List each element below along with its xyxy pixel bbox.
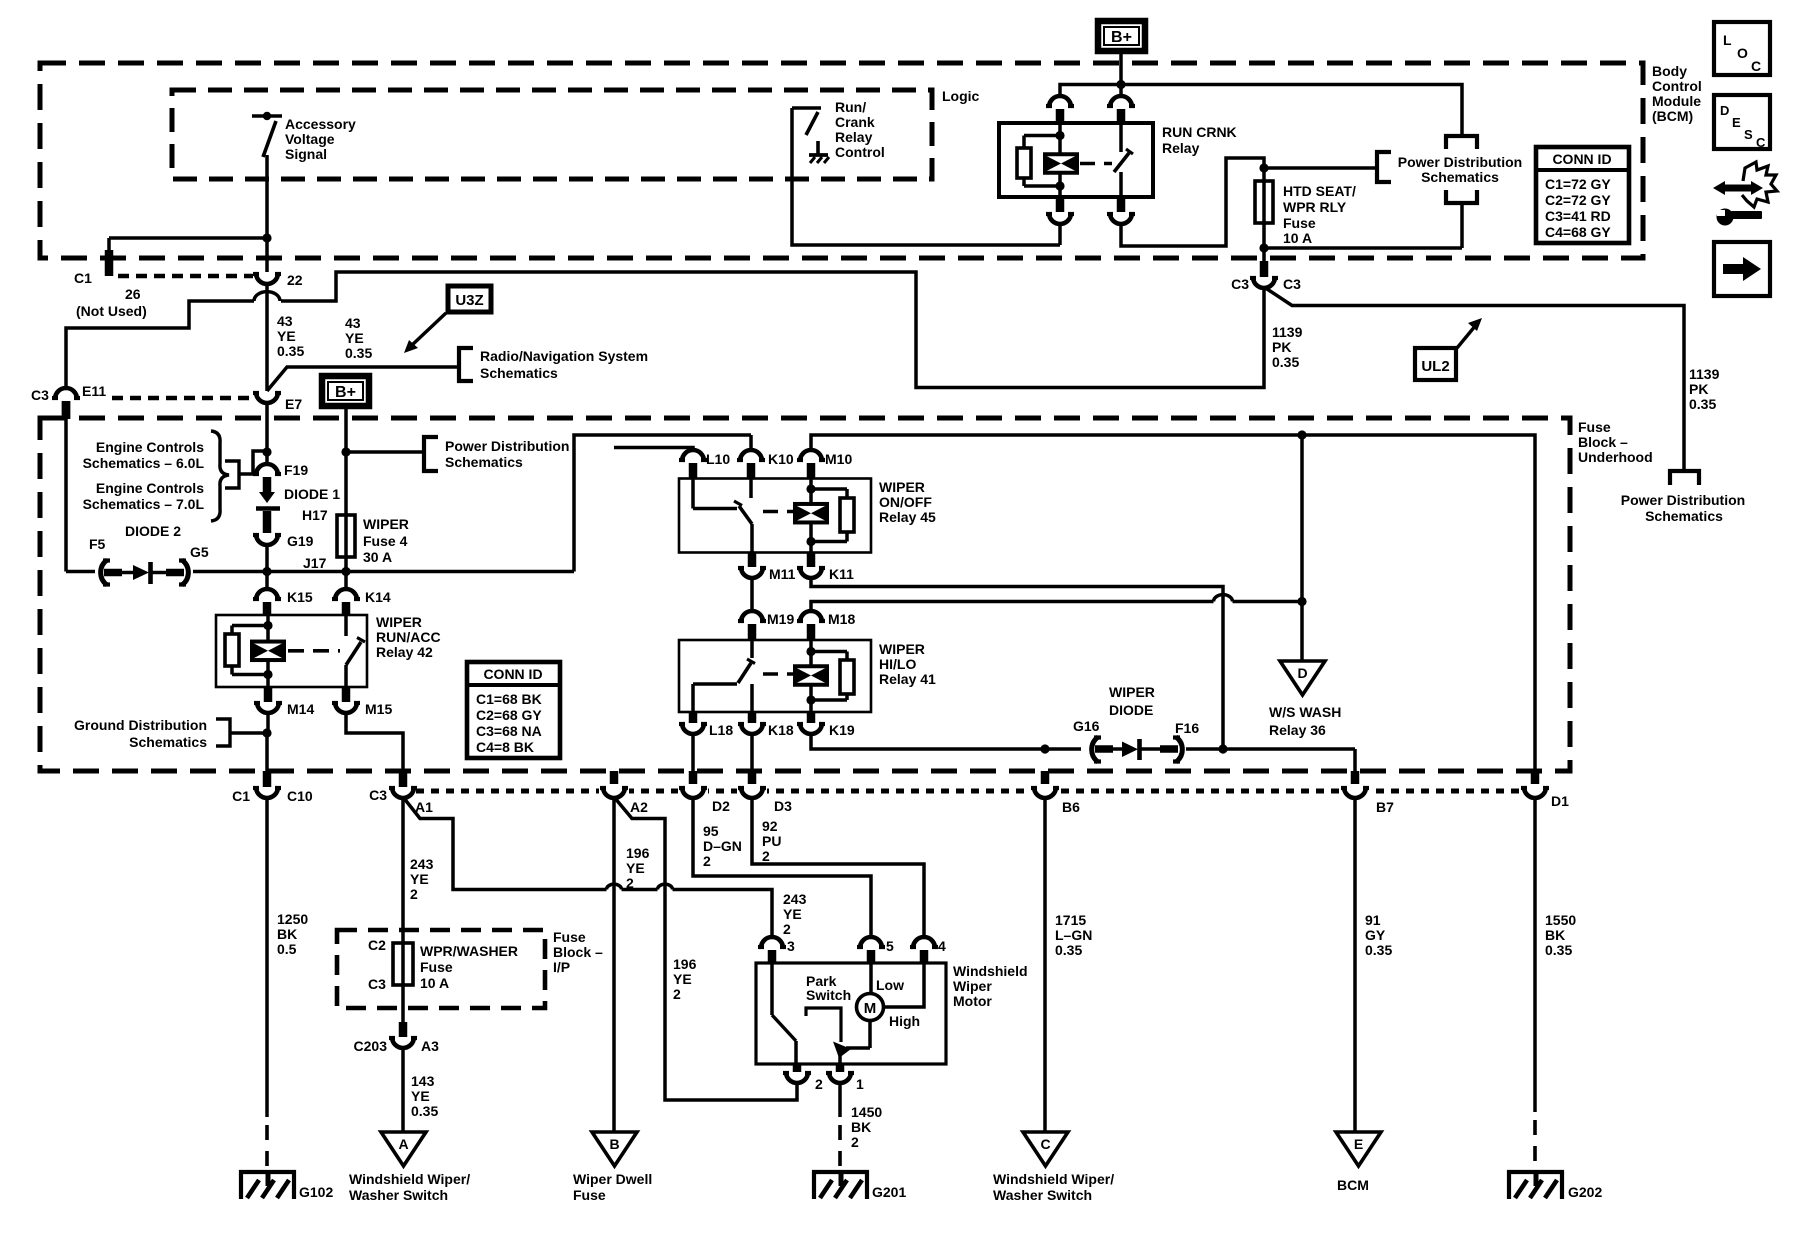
svg-text:YE: YE bbox=[626, 860, 645, 876]
svg-text:Power Distribution: Power Distribution bbox=[1621, 492, 1745, 508]
svg-text:M11: M11 bbox=[769, 566, 796, 582]
triangle E BCM bbox=[1336, 1132, 1381, 1166]
svg-text:G201: G201 bbox=[872, 1184, 906, 1200]
connector F5 bbox=[101, 560, 107, 585]
ground G102 bbox=[241, 1172, 294, 1199]
svg-text:PU: PU bbox=[762, 833, 781, 849]
svg-text:2: 2 bbox=[783, 921, 791, 937]
svg-text:E: E bbox=[1732, 115, 1741, 130]
triangle A windshield wiper washer switch bbox=[381, 1132, 426, 1166]
diode WIPER DIODE bbox=[1095, 745, 1113, 753]
svg-text:HTD SEAT/: HTD SEAT/ bbox=[1283, 183, 1356, 199]
svg-text:C3: C3 bbox=[1283, 276, 1301, 292]
relay42 actuator dashed bbox=[288, 649, 340, 653]
connector K18 bbox=[748, 712, 757, 723]
connector E7 bbox=[256, 392, 278, 403]
off-page bracket power distribution (fuse block) bbox=[424, 437, 438, 471]
svg-text:Windshield: Windshield bbox=[953, 963, 1028, 979]
svg-text:GY: GY bbox=[1365, 927, 1386, 943]
wire K11 to wiper diode node bbox=[811, 577, 1223, 749]
svg-text:D–GN: D–GN bbox=[703, 838, 742, 854]
connector F19 bbox=[256, 464, 278, 475]
svg-text:5: 5 bbox=[886, 938, 894, 954]
svg-text:Fuse: Fuse bbox=[420, 959, 453, 975]
svg-text:2: 2 bbox=[851, 1134, 859, 1150]
svg-text:243: 243 bbox=[410, 856, 434, 872]
svg-text:G16: G16 bbox=[1073, 718, 1100, 734]
svg-text:G202: G202 bbox=[1568, 1184, 1602, 1200]
node junction accessory/C1 branch bbox=[262, 233, 271, 242]
svg-text:Crank: Crank bbox=[835, 114, 875, 130]
svg-text:C: C bbox=[1751, 58, 1761, 74]
svg-text:UL2: UL2 bbox=[1421, 358, 1449, 375]
connector 22 at BCM C1 bbox=[256, 273, 278, 284]
Fuse Block I/P dashed box bbox=[337, 930, 545, 1008]
wire low speed bbox=[869, 963, 873, 994]
svg-text:196: 196 bbox=[626, 845, 650, 861]
connector G16 bbox=[1092, 737, 1098, 762]
connector E11 at BCM C3 bbox=[55, 388, 77, 399]
UL2 label box bbox=[1415, 348, 1456, 380]
connector D3 bbox=[748, 771, 757, 787]
connector L10 bbox=[682, 450, 704, 461]
svg-text:143: 143 bbox=[411, 1073, 435, 1089]
wire 196 YE A2 branch to motor pin 2 bbox=[614, 797, 797, 1100]
resistor relay42 bbox=[225, 634, 239, 666]
BCM dashed outline (Body Control Module) bbox=[40, 63, 1643, 258]
connector B6 bbox=[1041, 771, 1050, 787]
dashed C1 connector row bbox=[118, 274, 253, 278]
svg-text:Low: Low bbox=[876, 977, 904, 993]
relay42 coil bbox=[266, 615, 270, 626]
wire B+ down bbox=[1119, 51, 1123, 85]
connector RUN CRNK relay switch pin (top) bbox=[1119, 85, 1123, 97]
connector M19 bbox=[741, 611, 763, 622]
Run/Crank Relay Control switch in logic box bbox=[792, 106, 821, 110]
svg-text:Ground Distribution: Ground Distribution bbox=[74, 717, 207, 733]
park switch bbox=[770, 963, 774, 1015]
svg-text:K19: K19 bbox=[829, 722, 855, 738]
svg-text:Radio/Navigation System: Radio/Navigation System bbox=[480, 348, 648, 364]
svg-text:Switch: Switch bbox=[806, 987, 851, 1003]
svg-text:Washer Switch: Washer Switch bbox=[349, 1187, 448, 1203]
windshield wiper motor box bbox=[756, 963, 946, 1064]
svg-text:B7: B7 bbox=[1376, 799, 1394, 815]
wire M14 to C1/C10 bbox=[266, 712, 270, 733]
svg-text:DIODE: DIODE bbox=[1109, 702, 1153, 718]
fuse WIPER Fuse 4 30A bbox=[337, 515, 355, 557]
svg-text:Module: Module bbox=[1652, 93, 1701, 109]
svg-text:C1=72 GY: C1=72 GY bbox=[1545, 176, 1611, 192]
connector RUN CRNK coil pin (bottom) bbox=[1056, 197, 1065, 212]
icon double-arrow wrench bbox=[1713, 181, 1725, 195]
svg-text:91: 91 bbox=[1365, 912, 1381, 928]
relay41 switch bbox=[750, 640, 754, 658]
svg-text:Schematics: Schematics bbox=[1421, 169, 1499, 185]
switch contacts RUN CRNK relay bbox=[1119, 123, 1123, 152]
svg-text:Relay 41: Relay 41 bbox=[879, 671, 936, 687]
wire M10 rail to D1 bbox=[811, 435, 1535, 772]
svg-text:B+: B+ bbox=[1111, 29, 1132, 46]
svg-text:2: 2 bbox=[410, 886, 418, 902]
connector motor pin 2 bbox=[793, 1064, 802, 1072]
resistor in RUN CRNK relay bbox=[1017, 148, 1031, 178]
svg-text:YE: YE bbox=[783, 906, 802, 922]
svg-text:Schematics: Schematics bbox=[445, 454, 523, 470]
svg-text:YE: YE bbox=[345, 330, 364, 346]
svg-text:WPR RLY: WPR RLY bbox=[1283, 199, 1347, 215]
svg-text:0.35: 0.35 bbox=[345, 345, 372, 361]
svg-text:(BCM): (BCM) bbox=[1652, 108, 1693, 124]
wire rail corner to K10 bbox=[749, 435, 753, 450]
svg-text:43: 43 bbox=[277, 313, 293, 329]
wire 1550 BK D1 to G202 bbox=[1533, 797, 1537, 1112]
svg-text:W/S WASH: W/S WASH bbox=[1269, 704, 1341, 720]
svg-text:H17: H17 bbox=[302, 507, 328, 523]
svg-text:Washer Switch: Washer Switch bbox=[993, 1187, 1092, 1203]
svg-text:DIODE 2: DIODE 2 bbox=[125, 523, 181, 539]
svg-text:Block –: Block – bbox=[553, 944, 603, 960]
wire 196 YE A2 to triangle B bbox=[612, 797, 616, 1132]
svg-text:D2: D2 bbox=[712, 798, 730, 814]
svg-text:Fuse: Fuse bbox=[553, 929, 586, 945]
ground G201 bbox=[814, 1172, 867, 1199]
relay WIPER RUN/ACC Relay 42 box bbox=[216, 615, 367, 687]
wire L18 to D2 bbox=[691, 733, 695, 772]
svg-text:High: High bbox=[889, 1013, 920, 1029]
RUN CRNK relay coil circuit bbox=[1058, 123, 1062, 136]
svg-text:ON/OFF: ON/OFF bbox=[879, 494, 932, 510]
wire branch to C1 pin 26 bbox=[109, 236, 267, 240]
wire diode to B7 bbox=[1186, 747, 1355, 751]
svg-text:1250: 1250 bbox=[277, 911, 308, 927]
svg-text:43: 43 bbox=[345, 315, 361, 331]
wire high speed bbox=[884, 963, 924, 1007]
node engine controls tap bbox=[262, 447, 271, 456]
node K14 junction bbox=[341, 567, 350, 576]
svg-text:RUN/ACC: RUN/ACC bbox=[376, 629, 441, 645]
wire tap to power distribution bracket bbox=[346, 450, 424, 454]
icon forward arrow box bbox=[1714, 242, 1770, 296]
resistor relay41 bbox=[811, 650, 847, 654]
relay WIPER ON/OFF Relay 45 box bbox=[679, 479, 871, 553]
svg-text:C2: C2 bbox=[368, 937, 386, 953]
svg-text:C1: C1 bbox=[232, 788, 250, 804]
svg-text:F5: F5 bbox=[89, 536, 106, 552]
svg-text:Schematics: Schematics bbox=[129, 734, 207, 750]
node ground distribution tap bbox=[262, 728, 271, 737]
svg-text:A1: A1 bbox=[415, 799, 433, 815]
node B+ junction bbox=[1116, 80, 1125, 89]
connector A2 bbox=[610, 771, 619, 787]
wire E11 branch down left side bbox=[62, 401, 71, 419]
connector G19 bbox=[256, 534, 278, 545]
power distribution inline symbol (BCM) bbox=[1446, 136, 1477, 149]
svg-text:K10: K10 bbox=[768, 451, 794, 467]
svg-text:YE: YE bbox=[411, 1088, 430, 1104]
svg-text:Control: Control bbox=[1652, 78, 1702, 94]
svg-text:D1: D1 bbox=[1551, 793, 1569, 809]
svg-text:YE: YE bbox=[410, 871, 429, 887]
wire relay output to HTD SEAT fuse bbox=[1121, 158, 1264, 246]
U3Z label box bbox=[448, 286, 491, 312]
wire run/crank control to relay coil bbox=[792, 108, 1060, 245]
svg-text:Relay 36: Relay 36 bbox=[1269, 722, 1326, 738]
connector RUN CRNK relay coil pin (top) bbox=[1049, 96, 1071, 107]
svg-text:Schematics: Schematics bbox=[480, 365, 558, 381]
svg-text:WPR/WASHER: WPR/WASHER bbox=[420, 943, 518, 959]
wire 92 PU D3 to motor pin 4 bbox=[752, 797, 924, 938]
wire diode2 row to K15/K14 bbox=[193, 570, 574, 574]
connector D2 bbox=[689, 771, 698, 787]
svg-text:Fuse: Fuse bbox=[573, 1187, 606, 1203]
svg-text:Relay: Relay bbox=[835, 129, 873, 145]
svg-text:L: L bbox=[1723, 32, 1732, 48]
svg-text:Fuse 4: Fuse 4 bbox=[363, 533, 408, 549]
connector C3/A1 bbox=[399, 771, 408, 787]
svg-text:Control: Control bbox=[835, 144, 885, 160]
wire M11 to M19 bbox=[750, 577, 754, 612]
svg-text:Schematics: Schematics bbox=[1645, 508, 1723, 524]
node power distribution tap bbox=[341, 447, 350, 456]
svg-text:WIPER: WIPER bbox=[376, 614, 422, 630]
accessory voltage signal switch bbox=[263, 112, 271, 120]
connector M18 bbox=[800, 611, 822, 622]
svg-text:DIODE 1: DIODE 1 bbox=[284, 486, 340, 502]
wire M15 to C3/A1 bbox=[346, 712, 403, 772]
svg-text:HI/LO: HI/LO bbox=[879, 656, 916, 672]
svg-text:Underhood: Underhood bbox=[1578, 449, 1653, 465]
B+ power symbol (fuse block) bbox=[322, 376, 369, 406]
fuse WPR/WASHER 10A bbox=[393, 943, 413, 985]
wire G19 to K15 junction bbox=[265, 544, 269, 572]
svg-text:196: 196 bbox=[673, 956, 697, 972]
svg-text:3: 3 bbox=[787, 938, 795, 954]
svg-text:YE: YE bbox=[277, 328, 296, 344]
wire pin22 lower bbox=[265, 238, 269, 272]
svg-text:WIPER: WIPER bbox=[879, 641, 925, 657]
node B6 junction bbox=[1040, 744, 1049, 753]
coil winding relay42 bbox=[252, 642, 284, 661]
wire 91 GY B7 to triangle E bbox=[1353, 797, 1357, 1132]
svg-text:2: 2 bbox=[703, 853, 711, 869]
resistor relay45 bbox=[811, 487, 847, 491]
svg-text:Windshield Wiper/: Windshield Wiper/ bbox=[349, 1171, 470, 1187]
wire 1450 BK to G201 bbox=[838, 1082, 842, 1117]
svg-text:O: O bbox=[1737, 45, 1748, 61]
svg-text:Signal: Signal bbox=[285, 146, 327, 162]
svg-text:B: B bbox=[609, 1136, 619, 1152]
svg-text:A3: A3 bbox=[421, 1038, 439, 1054]
wire K15/K14 row up to relay feed rail bbox=[574, 435, 751, 572]
svg-text:Voltage: Voltage bbox=[285, 131, 335, 147]
UL2 arrow bbox=[1457, 325, 1476, 348]
HTD SEAT/WPR RLY fuse bbox=[1262, 168, 1266, 262]
connector M15 bbox=[342, 687, 351, 702]
svg-text:E7: E7 bbox=[285, 396, 302, 412]
svg-text:BK: BK bbox=[851, 1119, 871, 1135]
wire K19 to wiper diode row bbox=[811, 733, 1081, 749]
triangle D page reference bbox=[1280, 661, 1325, 695]
relay45 actuator dashed bbox=[763, 510, 793, 514]
connector F16 bbox=[1176, 737, 1182, 762]
svg-text:0.5: 0.5 bbox=[277, 941, 297, 957]
svg-text:Schematics – 7.0L: Schematics – 7.0L bbox=[83, 496, 205, 512]
connector motor pin 3 bbox=[761, 937, 783, 948]
CONN ID table (BCM) bbox=[1536, 147, 1629, 243]
wire fuse top to power distribution page ref bbox=[1264, 166, 1377, 170]
svg-text:K18: K18 bbox=[768, 722, 794, 738]
svg-text:Relay: Relay bbox=[1162, 140, 1200, 156]
wire M18 to W/S wash relay wire bbox=[811, 602, 1214, 612]
wire 143 YE to triangle A bbox=[401, 1047, 405, 1132]
svg-text:4: 4 bbox=[938, 938, 946, 954]
svg-text:WIPER: WIPER bbox=[1109, 684, 1155, 700]
svg-text:M15: M15 bbox=[365, 701, 392, 717]
node wiper diode/K11 junction bbox=[1218, 744, 1227, 753]
Logic dashed box bbox=[172, 90, 932, 179]
svg-text:A: A bbox=[398, 1136, 408, 1152]
svg-text:1139: 1139 bbox=[1689, 366, 1720, 382]
svg-text:C: C bbox=[1756, 135, 1766, 150]
C1 pin 26 stub (not used) bbox=[105, 250, 114, 276]
diode DIODE 1 bbox=[259, 492, 275, 503]
svg-text:95: 95 bbox=[703, 823, 719, 839]
svg-text:0.35: 0.35 bbox=[1055, 942, 1082, 958]
relay45 coil bbox=[809, 479, 813, 490]
wire E7 into fuse block bbox=[265, 402, 269, 465]
svg-text:PK: PK bbox=[1689, 381, 1708, 397]
wire W/S wash relay drop bbox=[1300, 435, 1304, 661]
svg-text:J17: J17 bbox=[303, 555, 327, 571]
wire B+ rail left to coil pin bbox=[1060, 85, 1121, 97]
svg-text:10 A: 10 A bbox=[420, 975, 449, 991]
svg-text:B6: B6 bbox=[1062, 799, 1080, 815]
wire B+ to wiper fuse bbox=[344, 406, 348, 572]
svg-text:C3=41 RD: C3=41 RD bbox=[1545, 208, 1611, 224]
CONN ID table (fuse block) bbox=[467, 662, 560, 758]
svg-text:C2=72 GY: C2=72 GY bbox=[1545, 192, 1611, 208]
wire 243 YE C3/A1 down through WPR fuse bbox=[401, 797, 405, 1022]
connector M11 bbox=[748, 553, 757, 568]
actuator dashed link RUN CRNK bbox=[1080, 162, 1112, 166]
relay RUN CRNK box bbox=[999, 123, 1153, 197]
svg-text:Fuse: Fuse bbox=[1578, 419, 1611, 435]
svg-text:1450: 1450 bbox=[851, 1104, 882, 1120]
connector motor pin 1 bbox=[836, 1064, 845, 1072]
svg-text:1715: 1715 bbox=[1055, 912, 1086, 928]
connector K10 bbox=[740, 450, 762, 461]
connector K15 bbox=[265, 572, 269, 590]
svg-text:C1: C1 bbox=[74, 270, 92, 286]
svg-text:WIPER: WIPER bbox=[363, 516, 409, 532]
svg-text:BK: BK bbox=[1545, 927, 1565, 943]
svg-text:Motor: Motor bbox=[953, 993, 992, 1009]
svg-text:2: 2 bbox=[673, 986, 681, 1002]
svg-text:Accessory: Accessory bbox=[285, 116, 356, 132]
svg-text:2: 2 bbox=[815, 1076, 823, 1092]
svg-text:YE: YE bbox=[673, 971, 692, 987]
wire K18 to D3 bbox=[750, 733, 754, 772]
svg-text:C3: C3 bbox=[368, 976, 386, 992]
svg-text:F19: F19 bbox=[284, 462, 308, 478]
connector K14 bbox=[344, 572, 348, 590]
svg-text:Wiper Dwell: Wiper Dwell bbox=[573, 1171, 652, 1187]
svg-text:CONN ID: CONN ID bbox=[1552, 151, 1611, 167]
svg-text:0.35: 0.35 bbox=[1365, 942, 1392, 958]
svg-text:E: E bbox=[1354, 1136, 1363, 1152]
svg-text:C: C bbox=[1040, 1136, 1050, 1152]
svg-text:G102: G102 bbox=[299, 1184, 333, 1200]
svg-text:10 A: 10 A bbox=[1283, 230, 1312, 246]
svg-text:2: 2 bbox=[762, 848, 770, 864]
svg-text:C2=68 GY: C2=68 GY bbox=[476, 707, 542, 723]
svg-text:Power Distribution: Power Distribution bbox=[1398, 154, 1522, 170]
node fuse top junction bbox=[1259, 163, 1268, 172]
svg-text:K11: K11 bbox=[829, 566, 854, 582]
svg-text:L10: L10 bbox=[706, 451, 730, 467]
svg-text:M19: M19 bbox=[767, 611, 794, 627]
svg-text:2: 2 bbox=[626, 875, 634, 891]
relay42 switch bbox=[344, 615, 348, 636]
svg-text:L–GN: L–GN bbox=[1055, 927, 1092, 943]
svg-text:0.35: 0.35 bbox=[411, 1103, 438, 1119]
svg-text:PK: PK bbox=[1272, 339, 1291, 355]
connector C3/C3 underhood fuse block bbox=[1260, 261, 1269, 277]
icon DESC box bbox=[1714, 95, 1770, 149]
svg-text:E11: E11 bbox=[82, 383, 106, 399]
svg-text:D3: D3 bbox=[774, 798, 792, 814]
svg-text:Schematics – 6.0L: Schematics – 6.0L bbox=[83, 455, 205, 471]
svg-text:Block –: Block – bbox=[1578, 434, 1628, 450]
connector G5 bbox=[182, 560, 188, 585]
svg-text:C3: C3 bbox=[31, 387, 49, 403]
coil winding RUN CRNK relay bbox=[1045, 154, 1077, 173]
connector C203/A3 bbox=[399, 1022, 408, 1037]
svg-text:26: 26 bbox=[125, 286, 141, 302]
svg-text:Wiper: Wiper bbox=[953, 978, 992, 994]
svg-text:G19: G19 bbox=[287, 533, 314, 549]
node fuse bottom junction bbox=[1259, 243, 1268, 252]
svg-text:M: M bbox=[864, 1000, 877, 1017]
connector C1/C10 bbox=[263, 771, 272, 787]
relay45 switch bbox=[691, 479, 695, 509]
svg-text:Power Distribution: Power Distribution bbox=[445, 438, 569, 454]
relay41 coil bbox=[809, 640, 813, 652]
svg-text:M10: M10 bbox=[825, 451, 852, 467]
svg-text:M14: M14 bbox=[287, 701, 314, 717]
off-page bracket radio/navigation bbox=[459, 348, 473, 381]
svg-text:92: 92 bbox=[762, 818, 778, 834]
svg-text:I/P: I/P bbox=[553, 959, 570, 975]
triangle C windshield wiper washer switch bbox=[1023, 1132, 1068, 1166]
svg-text:0.35: 0.35 bbox=[277, 343, 304, 359]
svg-text:Windshield Wiper/: Windshield Wiper/ bbox=[993, 1171, 1114, 1187]
connector M14 bbox=[264, 687, 273, 702]
svg-text:BK: BK bbox=[277, 926, 297, 942]
connector D1 bbox=[1531, 771, 1540, 787]
connector motor pin 5 bbox=[860, 937, 882, 948]
connector L18 bbox=[689, 712, 698, 723]
connector RUN CRNK switch pin (bottom) bbox=[1117, 197, 1126, 212]
svg-text:C10: C10 bbox=[287, 788, 313, 804]
svg-text:Engine Controls: Engine Controls bbox=[96, 439, 204, 455]
wire accessory signal down to pin 22 bbox=[265, 155, 269, 238]
svg-text:D: D bbox=[1297, 665, 1307, 681]
svg-text:RUN CRNK: RUN CRNK bbox=[1162, 124, 1237, 140]
svg-text:C3: C3 bbox=[1231, 276, 1249, 292]
svg-text:0.35: 0.35 bbox=[1689, 396, 1716, 412]
